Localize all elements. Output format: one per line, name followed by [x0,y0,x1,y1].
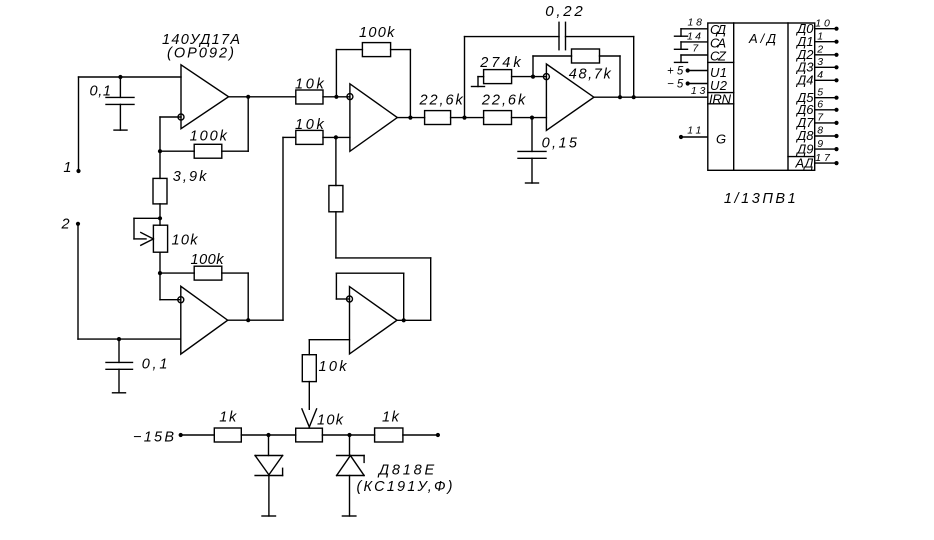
svg-text:1k: 1k [382,410,400,426]
svg-text:(КС191У,Ф): (КС191У,Ф) [357,479,453,495]
svg-text:1/13ПВ1: 1/13ПВ1 [724,191,796,207]
svg-text:0,1: 0,1 [142,357,168,373]
svg-text:Д9: Д9 [795,141,813,156]
svg-text:5: 5 [817,86,823,98]
svg-text:Д818Е: Д818Е [377,462,435,478]
svg-text:48,7k: 48,7k [569,66,612,82]
svg-text:1k: 1k [219,410,237,426]
svg-text:22,6k: 22,6k [481,93,526,109]
svg-text:IRN: IRN [709,91,732,106]
svg-text:100k: 100k [191,252,225,268]
svg-text:1: 1 [63,160,71,176]
svg-text:0,15: 0,15 [542,135,578,151]
svg-text:4: 4 [817,69,823,81]
svg-text:10k: 10k [295,77,324,93]
svg-text:−15В: −15В [133,429,174,445]
svg-text:100k: 100k [359,25,395,41]
svg-text:0,22: 0,22 [545,3,583,20]
svg-text:2: 2 [61,217,70,233]
svg-text:CZ: CZ [710,49,727,64]
svg-text:17: 17 [815,152,831,164]
svg-text:А/Д: А/Д [748,31,776,46]
svg-text:10k: 10k [319,359,348,375]
svg-text:22,6k: 22,6k [419,93,464,109]
svg-text:10k: 10k [172,232,199,248]
svg-text:3: 3 [817,56,823,68]
svg-text:АД: АД [795,155,814,170]
svg-text:3,9k: 3,9k [173,169,207,185]
svg-text:2: 2 [816,44,823,56]
svg-text:1: 1 [817,30,823,42]
svg-text:(ОР092): (ОР092) [167,46,234,62]
svg-text:6: 6 [817,99,823,111]
svg-text:10k: 10k [295,117,324,133]
svg-text:Д4: Д4 [795,73,813,88]
svg-text:0,1: 0,1 [90,83,112,99]
svg-text:9: 9 [817,138,823,150]
svg-text:10k: 10k [317,412,344,428]
svg-text:8: 8 [817,125,823,137]
svg-text:G: G [716,132,726,147]
